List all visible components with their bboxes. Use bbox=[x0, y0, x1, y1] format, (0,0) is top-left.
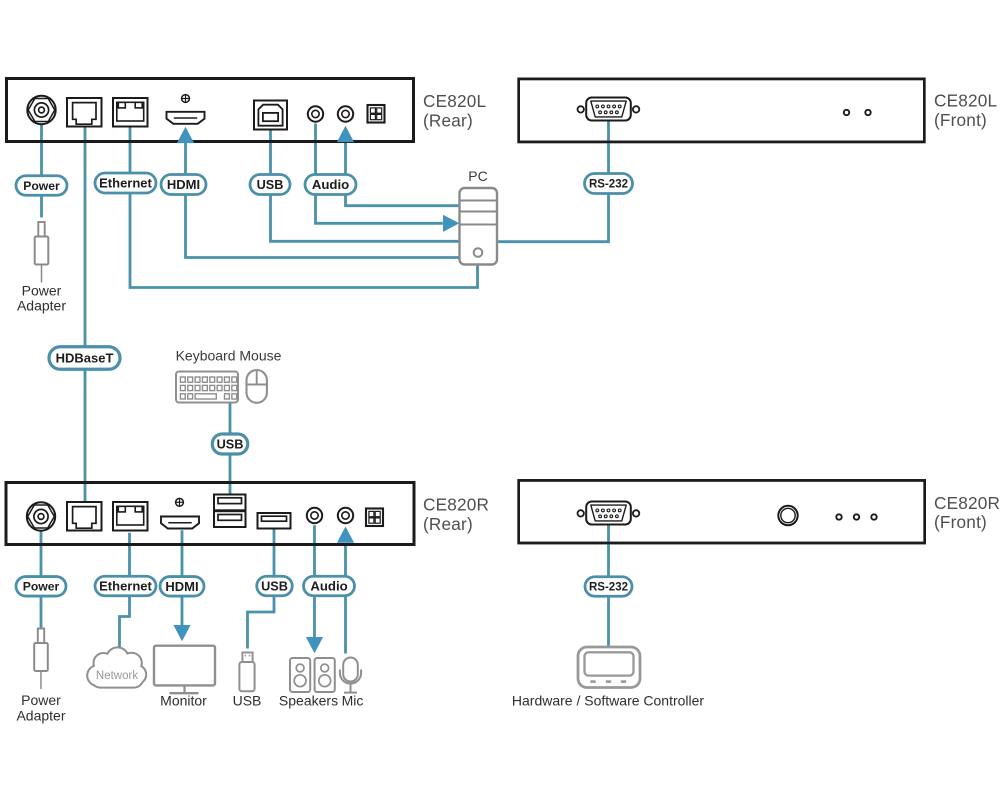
svg-text:Mic: Mic bbox=[342, 693, 364, 709]
svg-text:(Front): (Front) bbox=[934, 512, 987, 532]
svg-text:HDMI: HDMI bbox=[167, 177, 200, 192]
svg-text:Keyboard Mouse: Keyboard Mouse bbox=[176, 348, 282, 364]
svg-text:Power: Power bbox=[22, 282, 62, 298]
svg-text:CE820L: CE820L bbox=[934, 91, 997, 111]
svg-text:USB: USB bbox=[257, 178, 284, 192]
svg-text:PC: PC bbox=[468, 168, 487, 184]
svg-text:Audio: Audio bbox=[312, 177, 349, 192]
svg-text:Speakers: Speakers bbox=[279, 693, 338, 709]
svg-text:USB: USB bbox=[217, 438, 244, 452]
svg-text:(Rear): (Rear) bbox=[423, 111, 473, 131]
svg-text:RS-232: RS-232 bbox=[589, 179, 628, 191]
svg-text:(Rear): (Rear) bbox=[423, 514, 473, 534]
svg-text:Audio: Audio bbox=[310, 579, 347, 594]
svg-text:RS-232: RS-232 bbox=[589, 582, 628, 594]
svg-text:Ethernet: Ethernet bbox=[99, 579, 152, 594]
svg-text:Power: Power bbox=[21, 692, 61, 708]
svg-text:CE820L: CE820L bbox=[423, 91, 486, 111]
svg-text:Adapter: Adapter bbox=[16, 707, 65, 723]
svg-text:(Front): (Front) bbox=[934, 110, 987, 130]
svg-text:HDMI: HDMI bbox=[165, 579, 198, 594]
svg-text:Ethernet: Ethernet bbox=[99, 176, 152, 191]
svg-text:Hardware / Software Controller: Hardware / Software Controller bbox=[512, 693, 705, 709]
svg-text:HDBaseT: HDBaseT bbox=[56, 351, 114, 366]
svg-text:Adapter: Adapter bbox=[17, 298, 66, 314]
svg-text:Power: Power bbox=[23, 580, 60, 594]
svg-text:Power: Power bbox=[23, 179, 60, 193]
svg-text:USB: USB bbox=[233, 693, 262, 709]
svg-text:Network: Network bbox=[96, 670, 138, 682]
svg-text:Monitor: Monitor bbox=[160, 693, 207, 709]
svg-text:CE820R: CE820R bbox=[423, 495, 489, 515]
svg-text:CE820R: CE820R bbox=[934, 493, 1000, 513]
svg-text:USB: USB bbox=[261, 580, 288, 594]
